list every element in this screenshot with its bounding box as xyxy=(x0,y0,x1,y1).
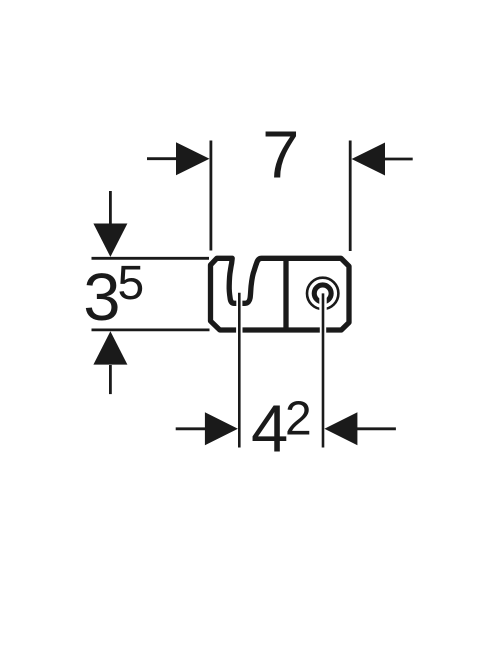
dim7 right arrow tail xyxy=(384,158,413,161)
dim42 right arrowhead xyxy=(324,412,357,445)
screw hole ring gap (leader passthrough) xyxy=(319,297,326,307)
dim7 left arrow tail xyxy=(147,157,178,160)
dim35 up arrow tail xyxy=(109,365,112,394)
dim35 down arrowhead xyxy=(93,224,127,257)
svg-text:4: 4 xyxy=(251,391,288,466)
svg-text:3: 3 xyxy=(83,260,120,335)
dim35 down arrow tail xyxy=(109,191,112,226)
divider line xyxy=(283,258,288,330)
dim42 left arrowhead xyxy=(205,412,238,445)
screw hole ring xyxy=(314,285,331,302)
dim42 right leader line xyxy=(322,293,325,447)
dim35 up arrowhead xyxy=(93,331,127,364)
part outline right section with hook slot right wall xyxy=(242,258,349,330)
svg-text:5: 5 xyxy=(117,257,144,310)
dim7 right arrowhead xyxy=(352,143,385,176)
svg-text:7: 7 xyxy=(262,117,299,192)
dim42 left arrow tail xyxy=(176,427,207,430)
screw hole outer circle xyxy=(307,278,338,309)
dim7 left extension line xyxy=(209,141,212,251)
dim35 bottom extension line xyxy=(92,328,210,331)
dim42 left leader line xyxy=(238,293,241,448)
svg-text:2: 2 xyxy=(285,392,312,445)
outer circle gap (leader passthrough) xyxy=(319,306,326,313)
dim7 left arrowhead xyxy=(176,142,210,175)
dim7 right extension line xyxy=(349,141,352,252)
part outline left section with hook slot left wall xyxy=(211,258,237,330)
dim42 right arrow tail xyxy=(356,427,396,430)
dim35 top extension line xyxy=(92,257,210,260)
